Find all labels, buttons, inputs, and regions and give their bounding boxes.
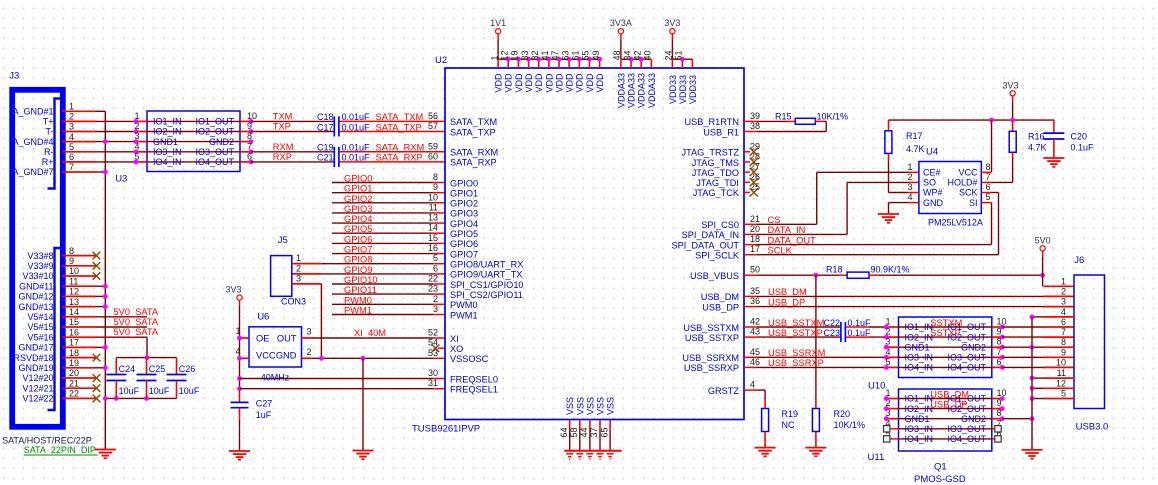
svg-text:5V0_SATA: 5V0_SATA (114, 327, 159, 337)
svg-text:USB_SSTXP: USB_SSTXP (685, 333, 739, 343)
svg-text:VDDA33: VDDA33 (616, 73, 626, 108)
svg-text:SATA_RXM: SATA_RXM (450, 148, 498, 158)
svg-text:VDD: VDD (585, 73, 595, 93)
svg-text:1: 1 (1061, 276, 1066, 286)
svg-text:RSVD#18: RSVD#18 (13, 353, 53, 363)
svg-text:63: 63 (560, 50, 570, 60)
svg-text:52: 52 (428, 328, 438, 338)
svg-text:JTAG_TRSTZ: JTAG_TRSTZ (681, 148, 739, 158)
svg-text:VDD: VDD (534, 73, 544, 93)
svg-text:TXP: TXP (273, 122, 291, 132)
svg-text:IO3_IN: IO3_IN (153, 147, 182, 157)
svg-text:44: 44 (579, 427, 589, 437)
svg-text:38: 38 (750, 121, 760, 131)
svg-text:C22: C22 (823, 318, 840, 328)
svg-text:TUSB9261IPVP: TUSB9261IPVP (412, 424, 480, 435)
svg-text:10: 10 (1056, 357, 1066, 367)
svg-text:3: 3 (433, 304, 438, 314)
svg-text:0.01uF: 0.01uF (342, 153, 371, 163)
svg-text:37: 37 (589, 427, 599, 437)
svg-text:IO4_IN: IO4_IN (153, 157, 182, 167)
svg-text:V12#21: V12#21 (22, 383, 53, 393)
svg-text:R-: R- (44, 147, 54, 157)
svg-text:IO3_IN: IO3_IN (905, 353, 934, 363)
svg-text:VDD: VDD (554, 73, 564, 93)
svg-text:C27: C27 (256, 399, 273, 409)
svg-text:TXM: TXM (273, 111, 293, 121)
svg-text:0.01uF: 0.01uF (342, 143, 371, 153)
svg-text:2: 2 (69, 112, 74, 122)
svg-text:SO: SO (923, 178, 936, 188)
svg-text:SSTXP: SSTXP (930, 328, 960, 338)
svg-text:R20: R20 (834, 409, 851, 419)
svg-text:20: 20 (750, 224, 760, 234)
svg-text:GPIO4: GPIO4 (344, 214, 372, 224)
svg-text:J6: J6 (1074, 255, 1084, 266)
svg-text:GND2: GND2 (961, 414, 986, 424)
svg-text:12: 12 (69, 287, 79, 297)
svg-text:R15: R15 (775, 111, 792, 121)
svg-text:SPI_CS0: SPI_CS0 (701, 220, 739, 230)
svg-text:1: 1 (134, 111, 139, 121)
svg-text:GPIO6: GPIO6 (450, 239, 478, 249)
svg-text:JTAG_TDO: JTAG_TDO (692, 168, 739, 178)
svg-text:VDD: VDD (575, 73, 585, 93)
svg-text:C24: C24 (119, 364, 136, 374)
svg-text:C20: C20 (1071, 132, 1088, 142)
svg-text:JTAG_TMS: JTAG_TMS (692, 158, 739, 168)
svg-text:21: 21 (750, 214, 760, 224)
svg-text:PWM1: PWM1 (450, 310, 478, 320)
svg-text:5: 5 (986, 192, 991, 202)
svg-text:SATA_TXP: SATA_TXP (450, 127, 496, 137)
svg-text:V33#9: V33#9 (27, 261, 53, 271)
svg-text:VCC: VCC (958, 168, 978, 178)
svg-text:55: 55 (581, 50, 591, 60)
svg-text:USB_DP: USB_DP (930, 400, 967, 410)
svg-text:33: 33 (520, 50, 530, 60)
svg-text:5: 5 (134, 151, 139, 161)
svg-text:CE#: CE# (923, 168, 941, 178)
svg-text:SATA_TXM: SATA_TXM (450, 117, 497, 127)
svg-text:IO4_OUT: IO4_OUT (195, 157, 234, 167)
svg-text:GPIO4: GPIO4 (450, 219, 478, 229)
svg-text:C18: C18 (317, 112, 334, 122)
svg-text:1: 1 (69, 102, 74, 112)
svg-text:SPI_SCLK: SPI_SCLK (695, 251, 740, 261)
svg-text:3: 3 (296, 273, 301, 283)
svg-text:VSSOSC: VSSOSC (450, 354, 489, 364)
svg-text:HOLD#: HOLD# (947, 178, 977, 188)
svg-text:16: 16 (69, 327, 79, 337)
svg-text:6: 6 (1061, 317, 1066, 327)
svg-text:IO4_OUT: IO4_OUT (947, 363, 986, 373)
svg-text:3V3: 3V3 (225, 285, 241, 295)
svg-text:3: 3 (134, 131, 139, 141)
svg-text:FREQSEL0: FREQSEL0 (450, 374, 498, 384)
svg-text:USB_SSRXP: USB_SSRXP (768, 358, 824, 368)
svg-text:16: 16 (428, 243, 438, 253)
svg-text:VDD: VDD (524, 73, 534, 93)
svg-text:10uF: 10uF (149, 386, 170, 396)
svg-text:GPIO3: GPIO3 (450, 209, 478, 219)
svg-text:GPIO8: GPIO8 (344, 255, 372, 265)
svg-text:22: 22 (428, 274, 438, 284)
svg-text:17: 17 (69, 338, 79, 348)
svg-text:SPI_DATA_IN: SPI_DATA_IN (682, 230, 739, 240)
svg-text:1: 1 (885, 317, 890, 327)
svg-text:Q1: Q1 (934, 462, 947, 473)
svg-text:USB_R1RTN: USB_R1RTN (685, 117, 739, 127)
svg-text:5: 5 (69, 142, 74, 152)
svg-text:SSTXM: SSTXM (930, 318, 962, 328)
svg-text:USB_SSRXM: USB_SSRXM (682, 353, 739, 363)
svg-text:V5#15: V5#15 (27, 322, 53, 332)
svg-text:USB_DM: USB_DM (701, 292, 739, 302)
svg-text:A_GND#1: A_GND#1 (12, 107, 53, 117)
svg-text:41: 41 (540, 50, 550, 60)
svg-text:GPIO1: GPIO1 (450, 189, 478, 199)
svg-text:6: 6 (433, 263, 438, 273)
svg-text:21: 21 (69, 378, 79, 388)
svg-text:T+: T+ (43, 117, 54, 127)
svg-text:8: 8 (1061, 337, 1066, 347)
svg-text:3: 3 (1061, 297, 1066, 307)
svg-text:SATA_TXP: SATA_TXP (376, 122, 422, 132)
svg-text:54: 54 (428, 338, 438, 348)
svg-text:43: 43 (750, 327, 760, 337)
svg-text:VSS: VSS (565, 397, 575, 415)
svg-text:XO: XO (450, 344, 463, 354)
svg-text:GRSTZ: GRSTZ (708, 386, 740, 396)
svg-text:U4: U4 (926, 147, 938, 158)
svg-text:USB_VBUS: USB_VBUS (690, 271, 739, 281)
svg-text:C17: C17 (317, 122, 334, 132)
svg-text:GPIO1: GPIO1 (344, 184, 372, 194)
svg-text:A_GND#7: A_GND#7 (12, 167, 53, 177)
svg-text:RXP: RXP (273, 152, 292, 162)
svg-text:39: 39 (750, 111, 760, 121)
svg-text:40: 40 (643, 50, 653, 60)
svg-text:11: 11 (429, 202, 438, 212)
svg-text:6: 6 (247, 151, 252, 161)
svg-text:VDDA33: VDDA33 (647, 73, 657, 108)
svg-text:USB3.0: USB3.0 (1076, 422, 1109, 433)
svg-text:49: 49 (591, 50, 601, 60)
svg-text:22: 22 (69, 389, 79, 399)
svg-text:USB_SSTXP: USB_SSTXP (768, 328, 823, 338)
svg-text:GPIO8/UART_RX: GPIO8/UART_RX (450, 260, 523, 270)
svg-text:IO1_IN: IO1_IN (153, 117, 182, 127)
svg-text:J5: J5 (278, 235, 288, 246)
svg-text:SATA_RXP: SATA_RXP (450, 158, 497, 168)
svg-text:GPIO10: GPIO10 (344, 275, 378, 285)
svg-text:13: 13 (428, 213, 438, 223)
svg-text:19: 19 (69, 358, 79, 368)
svg-text:10K/1%: 10K/1% (834, 420, 866, 430)
svg-text:9: 9 (433, 182, 438, 192)
svg-text:61: 61 (571, 50, 581, 60)
svg-text:10: 10 (247, 111, 257, 121)
svg-text:4.7K: 4.7K (906, 144, 925, 154)
svg-text:VSS: VSS (606, 397, 616, 415)
svg-text:GPIO2: GPIO2 (450, 199, 478, 209)
svg-text:VDD: VDD (514, 73, 524, 93)
svg-text:USB_SSTXM: USB_SSTXM (768, 318, 824, 328)
svg-text:4.7K: 4.7K (1028, 143, 1047, 153)
svg-text:SPI_DATA_OUT: SPI_DATA_OUT (671, 240, 739, 250)
svg-text:GPIO3: GPIO3 (344, 204, 372, 214)
svg-text:GND: GND (923, 198, 944, 208)
svg-text:7: 7 (247, 141, 252, 151)
svg-text:XI: XI (450, 334, 459, 344)
svg-text:5V0_SATA: 5V0_SATA (114, 317, 159, 327)
svg-text:10K/1%: 10K/1% (817, 111, 849, 121)
svg-text:SATA_22PIN_DIP: SATA_22PIN_DIP (24, 445, 96, 455)
svg-text:0.1uF: 0.1uF (848, 318, 872, 328)
svg-text:USB_SSTXM: USB_SSTXM (683, 323, 739, 333)
svg-text:19: 19 (510, 50, 520, 60)
svg-text:1: 1 (489, 55, 499, 60)
svg-text:FREQSEL1: FREQSEL1 (450, 385, 498, 395)
svg-text:V12#22: V12#22 (22, 394, 53, 404)
svg-text:SCK: SCK (959, 188, 978, 198)
svg-text:2: 2 (1061, 286, 1066, 296)
svg-text:CS: CS (768, 215, 781, 225)
svg-text:3: 3 (307, 327, 312, 337)
svg-text:GPIO7: GPIO7 (344, 245, 372, 255)
svg-text:90.9K/1%: 90.9K/1% (871, 265, 910, 275)
svg-text:7: 7 (986, 172, 991, 182)
svg-text:C23: C23 (823, 328, 840, 338)
svg-text:GND#11: GND#11 (19, 281, 53, 291)
svg-text:IO2_IN: IO2_IN (905, 332, 934, 342)
svg-text:14: 14 (428, 223, 438, 233)
svg-text:7: 7 (1061, 327, 1066, 337)
svg-text:0.1uF: 0.1uF (848, 328, 872, 338)
svg-text:5V0: 5V0 (1035, 236, 1051, 246)
svg-text:SATA_RXP: SATA_RXP (376, 153, 423, 163)
svg-text:12: 12 (1056, 378, 1066, 388)
svg-text:RXM: RXM (273, 142, 294, 152)
svg-text:1uF: 1uF (256, 410, 272, 420)
svg-text:GPIO5: GPIO5 (450, 229, 478, 239)
svg-text:51: 51 (674, 50, 684, 60)
svg-text:8: 8 (247, 131, 252, 141)
svg-text:T-: T- (46, 127, 54, 137)
svg-text:V12#20: V12#20 (22, 373, 53, 383)
svg-text:58: 58 (569, 427, 579, 437)
svg-text:3: 3 (907, 182, 912, 192)
svg-text:DATA_IN: DATA_IN (768, 225, 806, 235)
svg-text:GND2: GND2 (961, 342, 986, 352)
svg-text:IO1_OUT: IO1_OUT (195, 117, 234, 127)
svg-text:IO1_IN: IO1_IN (905, 322, 934, 332)
svg-text:C19: C19 (317, 143, 334, 153)
svg-text:13: 13 (69, 297, 79, 307)
svg-text:0.1uF: 0.1uF (1071, 143, 1095, 153)
svg-text:VDD: VDD (504, 73, 514, 93)
svg-text:1: 1 (907, 162, 912, 172)
svg-text:SPI_CS1/GPIO10: SPI_CS1/GPIO10 (450, 280, 524, 290)
svg-text:5: 5 (1061, 389, 1066, 399)
svg-text:2: 2 (296, 263, 301, 273)
svg-text:4: 4 (750, 380, 755, 390)
svg-text:USB_R1: USB_R1 (703, 127, 739, 137)
svg-text:31: 31 (428, 378, 438, 388)
svg-text:IO3_IN: IO3_IN (905, 424, 934, 434)
svg-text:IO4_OUT: IO4_OUT (947, 434, 986, 444)
svg-text:VDD33: VDD33 (668, 75, 678, 104)
svg-text:4: 4 (69, 132, 74, 142)
svg-text:42: 42 (632, 50, 642, 60)
svg-text:IO2_IN: IO2_IN (905, 404, 934, 414)
svg-text:SATA_TXM: SATA_TXM (376, 112, 424, 122)
svg-text:36: 36 (750, 296, 760, 306)
svg-text:2: 2 (134, 121, 139, 131)
svg-text:GND#19: GND#19 (18, 363, 53, 373)
svg-text:JTAG_TDI: JTAG_TDI (696, 178, 739, 188)
svg-text:J3: J3 (9, 70, 19, 81)
svg-text:R18: R18 (826, 265, 843, 275)
svg-text:VSS: VSS (575, 397, 585, 415)
svg-text:5V0_SATA: 5V0_SATA (114, 307, 159, 317)
svg-text:SPI_CS2/GPIO11: SPI_CS2/GPIO11 (450, 290, 523, 300)
svg-text:59: 59 (428, 141, 438, 151)
svg-text:OUT: OUT (277, 333, 297, 343)
svg-text:GPIO7: GPIO7 (450, 249, 478, 259)
svg-text:4: 4 (1061, 307, 1066, 317)
svg-text:3V3A: 3V3A (610, 18, 632, 28)
svg-text:32: 32 (530, 50, 540, 60)
svg-text:GND: GND (276, 350, 297, 360)
svg-text:IO2_IN: IO2_IN (153, 127, 182, 137)
svg-text:5: 5 (885, 357, 890, 367)
svg-text:14: 14 (69, 307, 79, 317)
svg-text:VDD: VDD (494, 73, 504, 93)
svg-text:GND1: GND1 (905, 414, 930, 424)
svg-text:VSS: VSS (596, 397, 606, 415)
svg-text:56: 56 (428, 111, 438, 121)
svg-text:R19: R19 (782, 409, 799, 419)
svg-text:10uF: 10uF (119, 386, 140, 396)
svg-text:USB_DM: USB_DM (768, 287, 807, 297)
svg-text:OE: OE (256, 333, 269, 343)
svg-text:USB_DP: USB_DP (768, 297, 805, 307)
svg-text:1: 1 (296, 253, 301, 263)
svg-text:2: 2 (307, 347, 312, 357)
svg-text:PMOS-GSD: PMOS-GSD (914, 474, 966, 485)
svg-text:USB_DM: USB_DM (930, 390, 969, 400)
svg-text:U6: U6 (257, 311, 269, 322)
svg-text:IO4_IN: IO4_IN (905, 363, 934, 373)
svg-text:GPIO0: GPIO0 (344, 174, 372, 184)
svg-text:10: 10 (428, 192, 438, 202)
svg-text:0.01uF: 0.01uF (342, 112, 371, 122)
svg-text:15: 15 (69, 317, 79, 327)
svg-text:GPIO6: GPIO6 (344, 234, 372, 244)
svg-text:GND#17: GND#17 (18, 343, 53, 353)
svg-text:18: 18 (750, 234, 760, 244)
svg-text:6: 6 (986, 182, 991, 192)
svg-text:4: 4 (134, 141, 139, 151)
svg-text:35: 35 (750, 286, 760, 296)
svg-text:V5#16: V5#16 (27, 332, 53, 342)
svg-text:DATA_OUT: DATA_OUT (768, 235, 817, 245)
svg-text:SATA_RXM: SATA_RXM (376, 143, 425, 153)
svg-text:PWM0: PWM0 (450, 300, 478, 310)
svg-text:PWM1: PWM1 (344, 306, 372, 316)
svg-text:23: 23 (428, 284, 438, 294)
svg-text:V5#14: V5#14 (27, 312, 53, 322)
svg-text:5: 5 (433, 253, 438, 263)
svg-text:60: 60 (428, 151, 438, 161)
svg-text:IO3_OUT: IO3_OUT (947, 353, 986, 363)
svg-text:GPIO9/UART_TX: GPIO9/UART_TX (450, 270, 522, 280)
svg-text:VSS: VSS (585, 397, 595, 415)
svg-text:12: 12 (499, 50, 509, 60)
svg-text:IO2_OUT: IO2_OUT (195, 127, 234, 137)
svg-text:8: 8 (433, 172, 438, 182)
svg-text:50: 50 (750, 265, 760, 275)
svg-text:2: 2 (433, 294, 438, 304)
svg-text:IO3_OUT: IO3_OUT (195, 147, 234, 157)
svg-text:VDD33: VDD33 (688, 75, 698, 104)
svg-text:GND#12: GND#12 (18, 292, 53, 302)
svg-text:42: 42 (750, 317, 760, 327)
svg-text:11: 11 (69, 276, 78, 286)
svg-text:IO4_IN: IO4_IN (905, 434, 934, 444)
svg-text:VDD: VDD (595, 73, 605, 93)
svg-text:53: 53 (428, 348, 438, 358)
svg-text:VDDA33: VDDA33 (627, 73, 637, 108)
svg-text:0.01uF: 0.01uF (342, 122, 371, 132)
svg-text:VDD33: VDD33 (678, 75, 688, 104)
svg-text:9: 9 (247, 121, 252, 131)
svg-text:3V3: 3V3 (1002, 81, 1018, 91)
svg-text:GND2: GND2 (209, 137, 234, 147)
svg-text:46: 46 (750, 357, 760, 367)
svg-text:3: 3 (69, 122, 74, 132)
svg-text:30: 30 (428, 368, 438, 378)
svg-text:4: 4 (907, 192, 912, 202)
svg-text:CON3: CON3 (281, 297, 306, 307)
svg-text:A_GND#4: A_GND#4 (12, 137, 53, 147)
svg-text:USB_SSRXM: USB_SSRXM (768, 348, 825, 358)
svg-text:2: 2 (885, 327, 890, 337)
svg-text:GPIO11: GPIO11 (344, 285, 377, 295)
svg-text:V33#8: V33#8 (27, 251, 53, 261)
svg-text:JTAG_TCK: JTAG_TCK (693, 188, 740, 198)
svg-text:47: 47 (550, 50, 560, 60)
svg-text:9: 9 (69, 256, 74, 266)
svg-text:PM25LV512A: PM25LV512A (928, 218, 983, 228)
svg-text:3V3: 3V3 (664, 18, 680, 28)
svg-text:8: 8 (986, 162, 991, 172)
svg-text:VDD: VDD (565, 73, 575, 93)
svg-text:48: 48 (612, 50, 622, 60)
svg-text:GND1: GND1 (153, 137, 178, 147)
svg-text:SI: SI (969, 198, 978, 208)
svg-text:40MHz: 40MHz (261, 373, 290, 383)
svg-text:V33#10: V33#10 (22, 271, 53, 281)
svg-text:57: 57 (428, 121, 438, 131)
svg-text:SATA/HOST/REC/22P: SATA/HOST/REC/22P (2, 435, 92, 445)
svg-text:C26: C26 (179, 364, 196, 374)
svg-text:VDDA33: VDDA33 (637, 73, 647, 108)
svg-text:GPIO9: GPIO9 (344, 265, 372, 275)
svg-text:U11: U11 (868, 452, 885, 463)
